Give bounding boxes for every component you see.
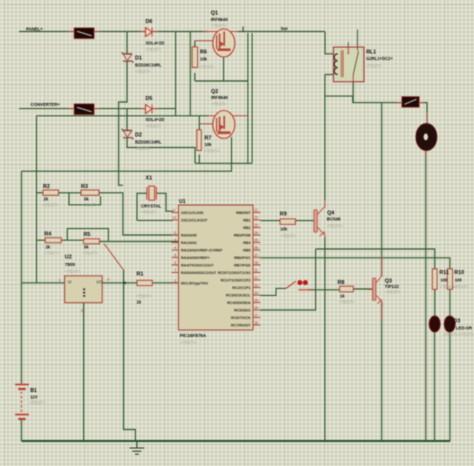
svg-text:R4: R4 <box>44 232 51 238</box>
svg-text:RB0/INT: RB0/INT <box>236 211 251 215</box>
svg-text:Q1: Q1 <box>211 11 218 17</box>
svg-text:10k: 10k <box>205 142 213 147</box>
svg-text:<TEXT>: <TEXT> <box>211 102 227 107</box>
svg-text:BZD26C24RL: BZD26C24RL <box>135 140 162 145</box>
svg-text:RB3/PGM: RB3/PGM <box>234 234 251 238</box>
svg-text:D5: D5 <box>146 96 153 102</box>
svg-text:BC548: BC548 <box>327 217 341 222</box>
svg-text:5: 5 <box>174 254 176 258</box>
svg-text:RB1: RB1 <box>243 219 250 223</box>
svg-text:G2RL1+DC2+: G2RL1+DC2+ <box>366 56 393 61</box>
svg-text:R7: R7 <box>205 136 212 142</box>
svg-text:7: 7 <box>174 269 176 273</box>
svg-text:R1: R1 <box>137 272 144 278</box>
svg-text:<TEXT>: <TEXT> <box>366 64 382 69</box>
svg-text:U2: U2 <box>65 255 72 261</box>
svg-text:2: 2 <box>174 231 176 235</box>
svg-text:D6: D6 <box>146 19 153 25</box>
svg-text:SOL4+2D: SOL4+2D <box>146 117 165 122</box>
svg-text:13: 13 <box>254 284 258 288</box>
svg-text:R8: R8 <box>338 280 345 286</box>
svg-text:21: 21 <box>254 209 258 213</box>
svg-text:RC1/T1OSI/CCP2: RC1/T1OSI/CCP2 <box>221 279 251 283</box>
svg-text:IRF9640: IRF9640 <box>211 17 228 22</box>
svg-text:R9: R9 <box>280 212 287 218</box>
svg-text:B1: B1 <box>30 388 37 394</box>
svg-text:17: 17 <box>254 314 258 318</box>
svg-text:<TEXT>: <TEXT> <box>199 65 215 70</box>
svg-text:12V: 12V <box>30 395 38 400</box>
svg-text:3: 3 <box>174 239 176 243</box>
svg-text:<TEXT>: <TEXT> <box>83 251 99 256</box>
svg-text:<TEXT>: <TEXT> <box>135 146 151 151</box>
svg-text:RL1: RL1 <box>366 50 376 56</box>
svg-text:1k: 1k <box>340 294 345 299</box>
svg-text:<TEXT><TEXT>: <TEXT><TEXT> <box>443 332 474 337</box>
svg-text:PANEL+: PANEL+ <box>26 27 43 32</box>
svg-text:<TEXT>: <TEXT> <box>281 234 297 239</box>
svg-text:RA3/AN3/VREF+: RA3/AN3/VREF+ <box>181 256 210 260</box>
svg-text:RC4/SDI/SDA: RC4/SDI/SDA <box>227 301 251 305</box>
svg-text:RB4: RB4 <box>243 241 251 245</box>
svg-text:R10: R10 <box>454 270 464 276</box>
svg-text:IRF9640: IRF9640 <box>211 95 228 100</box>
svg-text:<TEXT>: <TEXT> <box>339 300 355 305</box>
svg-text:RC3/SCK/SCL: RC3/SCK/SCL <box>226 294 251 298</box>
svg-text:23: 23 <box>254 224 258 228</box>
svg-text:11: 11 <box>254 269 258 273</box>
svg-text:16: 16 <box>254 306 258 310</box>
svg-text:D3: D3 <box>453 319 460 325</box>
svg-text:<TEXT>: <TEXT> <box>180 340 196 345</box>
svg-text:RC5/SDO: RC5/SDO <box>234 309 251 313</box>
svg-text:<TEXT>: <TEXT> <box>44 251 60 256</box>
svg-text:RA1/AN1: RA1/AN1 <box>181 241 197 245</box>
svg-text:2k: 2k <box>46 245 51 250</box>
svg-text:bar: bar <box>281 26 288 31</box>
svg-text:RA2/AN2/VREF-/CVREF: RA2/AN2/VREF-/CVREF <box>181 249 223 253</box>
svg-text:RC2/CCP1: RC2/CCP1 <box>232 286 250 290</box>
svg-text:7805: 7805 <box>65 262 76 267</box>
svg-text:<TEXT>: <TEXT> <box>82 203 98 208</box>
svg-text:OSC1/CLKIN: OSC1/CLKIN <box>181 211 204 215</box>
svg-text:RA5/AN4/SS/C2OUT: RA5/AN4/SS/C2OUT <box>181 271 217 275</box>
svg-text:RB7/PGD: RB7/PGD <box>234 264 251 268</box>
svg-text:RB5: RB5 <box>243 249 250 253</box>
svg-text:2k: 2k <box>44 197 49 202</box>
svg-text:5k: 5k <box>84 245 89 250</box>
svg-text:100: 100 <box>441 278 449 283</box>
svg-text:<TEXT>: <TEXT> <box>327 224 343 229</box>
svg-text:LED-OR: LED-OR <box>456 326 472 331</box>
svg-text:9: 9 <box>173 209 175 213</box>
svg-text:28: 28 <box>254 261 258 265</box>
svg-text:R2: R2 <box>43 184 50 190</box>
svg-text:<TEXT>: <TEXT> <box>135 69 151 74</box>
svg-text:<TEXT>: <TEXT> <box>204 149 220 154</box>
svg-text:12: 12 <box>254 276 258 280</box>
svg-text:10k: 10k <box>200 57 208 62</box>
svg-text:RA4/T0CKI/C1OUT: RA4/T0CKI/C1OUT <box>181 264 214 268</box>
svg-text:1: 1 <box>174 279 176 283</box>
svg-text:24: 24 <box>254 231 258 235</box>
svg-text:14: 14 <box>254 291 258 295</box>
svg-text:RC7/RX/DT: RC7/RX/DT <box>231 324 251 328</box>
svg-text:R5: R5 <box>84 232 91 238</box>
svg-text:<TEXT>: <TEXT> <box>453 285 469 290</box>
svg-text:10: 10 <box>172 216 176 220</box>
svg-text:100: 100 <box>455 278 463 283</box>
svg-text:<TEXT>: <TEXT> <box>212 23 228 28</box>
svg-text:RC0/T1OSO/T1CKI: RC0/T1OSO/T1CKI <box>218 271 251 275</box>
svg-text:TIP122: TIP122 <box>385 284 400 289</box>
svg-text:D1: D1 <box>135 56 142 62</box>
svg-text:<TEXT>: <TEXT> <box>146 124 162 129</box>
svg-text:PIC16F876A: PIC16F876A <box>180 333 207 338</box>
svg-text:25: 25 <box>254 239 258 243</box>
svg-text:CRYSTAL: CRYSTAL <box>141 204 162 209</box>
svg-text:R3: R3 <box>81 184 88 190</box>
svg-text:RB2: RB2 <box>243 226 250 230</box>
svg-text:CONVERTER+: CONVERTER+ <box>31 102 61 107</box>
svg-text:<TEXT>: <TEXT> <box>43 203 59 208</box>
svg-text:SOL4+2D: SOL4+2D <box>146 41 165 46</box>
svg-text:U1: U1 <box>179 199 186 205</box>
svg-text:D2: D2 <box>135 133 142 139</box>
svg-text:MCLR/Vpp/THV: MCLR/Vpp/THV <box>181 281 209 285</box>
svg-text:<TEXT>: <TEXT> <box>29 400 45 405</box>
svg-text:VI: VI <box>68 280 72 285</box>
svg-text:26: 26 <box>254 246 258 250</box>
svg-text:X1: X1 <box>146 176 153 182</box>
svg-text:OSC2/CLKOUT: OSC2/CLKOUT <box>181 219 208 223</box>
svg-text:BZD26C24RL: BZD26C24RL <box>135 63 162 68</box>
svg-text:R11: R11 <box>439 270 449 276</box>
svg-text:VO: VO <box>96 280 103 285</box>
svg-text:4: 4 <box>174 246 176 250</box>
svg-text:6: 6 <box>174 261 176 265</box>
svg-text:10k: 10k <box>280 227 288 232</box>
svg-text:<TEXT>: <TEXT> <box>65 269 81 274</box>
svg-text:<TEXT>: <TEXT> <box>141 210 157 215</box>
svg-text:RB6/PGC: RB6/PGC <box>234 256 251 260</box>
svg-text:27: 27 <box>254 254 258 258</box>
svg-text:<TEXT>: <TEXT> <box>385 290 401 295</box>
svg-text:RC6/TX/CK: RC6/TX/CK <box>231 316 251 320</box>
svg-text:<TEXT>: <TEXT> <box>146 47 162 52</box>
svg-text:15: 15 <box>254 299 258 303</box>
svg-text:R6: R6 <box>200 50 207 56</box>
svg-text:5k: 5k <box>84 197 89 202</box>
svg-text:22: 22 <box>254 216 258 220</box>
svg-text:<TEXT>: <TEXT> <box>136 294 152 299</box>
svg-text:18: 18 <box>254 321 258 325</box>
svg-text:RA0/AN0: RA0/AN0 <box>181 234 197 238</box>
svg-text:1k: 1k <box>137 300 142 305</box>
